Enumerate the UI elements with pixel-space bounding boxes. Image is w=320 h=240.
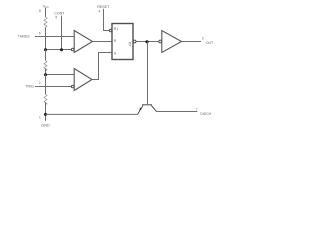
node B <box>44 73 47 76</box>
wire collector to DISCH <box>157 111 198 113</box>
node CONT junction <box>60 48 63 51</box>
svg-text:1: 1 <box>39 115 41 119</box>
wire rail R1 to node A <box>45 28 47 50</box>
svg-text:2: 2 <box>39 81 41 85</box>
wire rail R3 to GND node and stub <box>45 102 47 121</box>
wire OUT <box>182 41 202 43</box>
svg-text:OUT: OUT <box>206 41 214 45</box>
resistor R2 <box>44 61 47 72</box>
transistor Q1 emitter arrow <box>139 108 142 111</box>
wire rail node B to R3 <box>45 75 47 95</box>
Vcc label <box>43 3 49 9</box>
wire CONT drop <box>61 16 63 50</box>
comparator U1 (threshold) <box>74 31 92 53</box>
svg-text:R1: R1 <box>114 27 119 31</box>
svg-text:THRES: THRES <box>18 34 31 38</box>
wire node A to comparator inverting input <box>46 49 72 51</box>
wire Vcc rail top <box>45 8 47 17</box>
node GND <box>44 113 47 116</box>
comparator U2 (trigger) <box>74 69 92 91</box>
transistor Q1 base bar <box>142 104 152 106</box>
comparator U1 bubble <box>71 48 74 51</box>
svg-text:8: 8 <box>39 9 41 13</box>
svg-text:Q: Q <box>129 43 132 47</box>
svg-text:RESET: RESET <box>97 5 110 9</box>
svg-text:DISCH: DISCH <box>200 112 211 116</box>
svg-text:GND: GND <box>41 123 50 127</box>
comparator U2 bubble <box>71 85 74 88</box>
svg-text:6: 6 <box>39 32 41 36</box>
wire node B to comparator U2 <box>46 74 75 76</box>
svg-text:5: 5 <box>55 16 57 20</box>
wire THRES to comparator <box>35 36 74 38</box>
wire rail R2 to node B <box>45 69 47 75</box>
svg-text:7: 7 <box>196 107 198 111</box>
svg-text:4: 4 <box>99 10 101 14</box>
resistor R3 <box>44 94 47 105</box>
latch reset input bubble <box>109 29 112 32</box>
wire U2 output to latch S <box>92 53 112 80</box>
wire latch output to buffer <box>136 41 159 43</box>
latch label Qbar <box>129 42 132 46</box>
wire rail node A to R2 <box>45 50 47 61</box>
svg-text:3: 3 <box>202 36 204 40</box>
resistor R1 <box>44 17 47 28</box>
transistor Q1 emitter <box>138 105 143 114</box>
output buffer U4 <box>162 31 182 53</box>
latch U3 box <box>112 24 133 60</box>
buffer input bubble <box>159 40 162 43</box>
node A <box>44 48 47 51</box>
latch output bubble <box>133 40 136 43</box>
wire GND line to emitter <box>46 113 138 115</box>
wire U1 output to latch R <box>93 41 113 43</box>
svg-text:TRIG: TRIG <box>25 85 34 89</box>
wire TRIG to comparator U2 inverting input <box>35 86 71 88</box>
wire RESET to latch <box>104 9 110 31</box>
transistor Q1 collector <box>151 105 156 111</box>
wire junction to transistor base <box>147 42 149 105</box>
junction node (base drive) <box>145 40 148 43</box>
